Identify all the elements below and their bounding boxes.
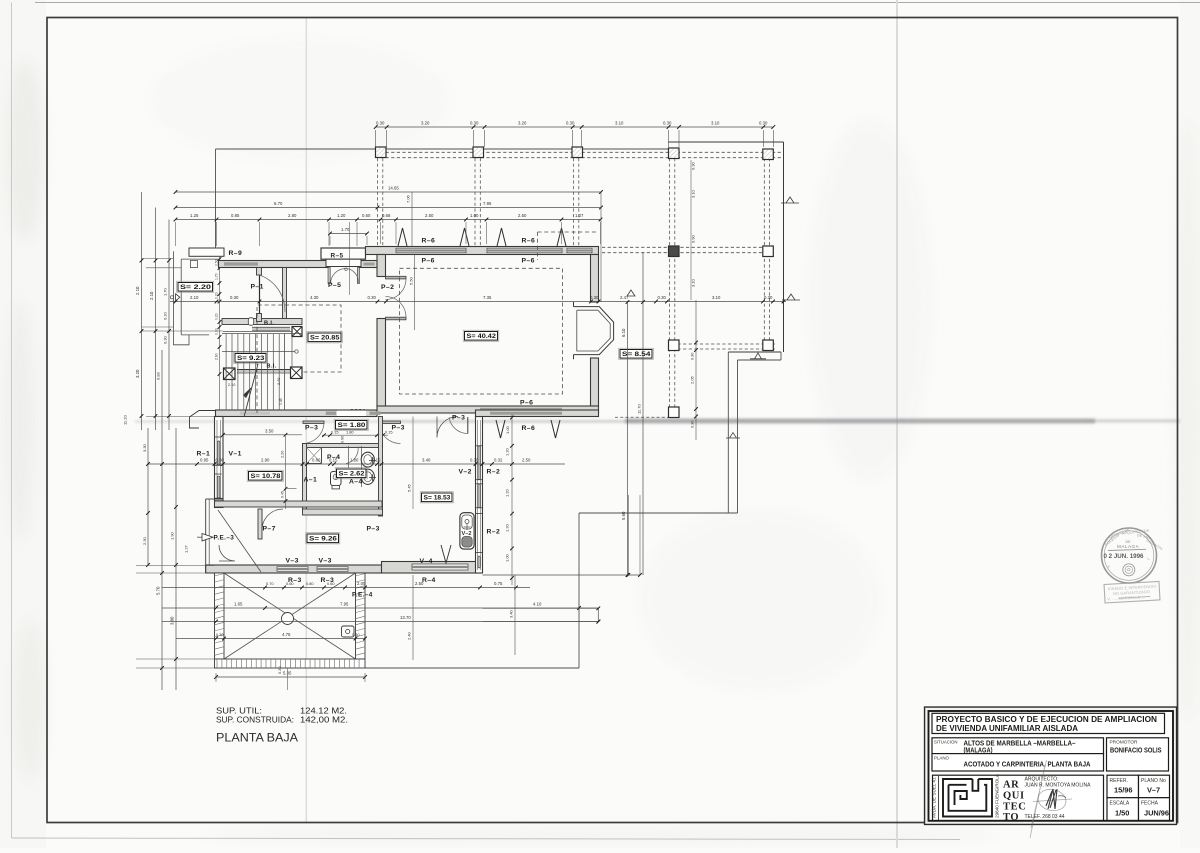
svg-text:R–2: R–2 <box>487 469 501 476</box>
svg-text:142,00 M2.: 142,00 M2. <box>300 714 348 724</box>
svg-text:0.30: 0.30 <box>368 295 377 300</box>
svg-text:MALAGA: MALAGA <box>1117 544 1140 549</box>
visado rectangular stamp <box>1104 581 1160 603</box>
svg-text:AVDA. DE SUEL 41: AVDA. DE SUEL 41 <box>932 777 937 818</box>
eave dashed south of bay <box>615 416 668 418</box>
svg-text:PROMOTOR: PROMOTOR <box>1110 739 1139 745</box>
area box S=2.62 <box>335 468 367 479</box>
pergola column A3 <box>572 147 583 158</box>
svg-text:R–6: R–6 <box>522 425 536 432</box>
situacion cell <box>932 738 1104 754</box>
door P-2 leaves <box>386 276 407 279</box>
terrace platform step top <box>728 351 781 353</box>
svg-text:2.30: 2.30 <box>142 536 147 545</box>
svg-text:7.06: 7.06 <box>406 194 411 203</box>
closet B.I. lower <box>237 369 290 371</box>
svg-text:V–7: V–7 <box>1147 786 1160 795</box>
dining room dashed outline <box>257 305 341 413</box>
area box S=10.78 <box>247 470 283 481</box>
svg-text:QUI: QUI <box>1003 791 1025 802</box>
living room west wall pillar <box>377 255 386 277</box>
dim 3.50 bedroom <box>223 434 302 436</box>
house west wall lower wing <box>215 417 224 508</box>
svg-text:2.10: 2.10 <box>149 291 154 300</box>
svg-text:V–1: V–1 <box>229 451 242 458</box>
svg-text:1.80: 1.80 <box>346 430 354 435</box>
svg-text:P–3: P–3 <box>367 526 380 533</box>
svg-text:29640 FUENGIROLA: 29640 FUENGIROLA <box>995 773 1000 818</box>
terrace hatched right strip <box>356 573 366 659</box>
living room east wall upper <box>591 255 599 303</box>
vertical dim 7.06 <box>411 192 413 247</box>
pergola column C5 <box>763 340 774 351</box>
terrace platform right wall inner <box>737 360 739 513</box>
door P-1 leaf and swing <box>259 275 261 314</box>
pergola post line v2b <box>479 158 481 246</box>
college stamp <box>1102 527 1165 583</box>
svg-text:S= 2.20: S= 2.20 <box>180 284 212 291</box>
area box S=9.23 <box>234 352 268 363</box>
area box S=1.80 <box>334 419 368 430</box>
dim chain y=464 <box>148 463 530 465</box>
architect logo meander <box>943 779 992 817</box>
corridor wall west step <box>190 411 216 429</box>
kitchen sink unit <box>460 513 474 549</box>
stair east boundary <box>284 334 286 411</box>
mid horizontal dim chain y=301.5 <box>170 301 786 303</box>
left extension lines <box>142 258 174 260</box>
corridor doors P-3 left <box>303 421 324 424</box>
svg-text:0.70: 0.70 <box>266 581 274 586</box>
vertical dims in terrace area <box>412 575 414 660</box>
stair treads <box>225 334 227 411</box>
svg-text:P–6: P–6 <box>522 258 535 265</box>
svg-text:1.00: 1.00 <box>505 425 510 434</box>
svg-text:A–4: A–4 <box>349 479 363 486</box>
area box S=9.26 <box>306 533 340 544</box>
svg-text:0.90: 0.90 <box>341 436 345 443</box>
vestibule R-5 box <box>321 248 366 259</box>
svg-text:2.50: 2.50 <box>518 213 527 218</box>
svg-text:ALTOS DE MARBELLA –MARBELLA: ALTOS DE MARBELLA –MARBELLA– <box>964 740 1076 747</box>
svg-text:2.40: 2.40 <box>277 378 281 385</box>
signature <box>1030 760 1072 838</box>
vertical fold crease left <box>306 17 308 823</box>
svg-text:2.40: 2.40 <box>407 631 412 640</box>
svg-text:V–3: V–3 <box>286 558 299 565</box>
svg-text:2.00: 2.00 <box>357 581 366 586</box>
pergola column B5 <box>763 246 774 257</box>
pergola column A5 <box>763 149 774 160</box>
svg-text:0.60: 0.60 <box>312 458 321 463</box>
pergola column B4 <box>669 246 680 257</box>
svg-text:3.20: 3.20 <box>135 369 140 378</box>
pergola column A4 <box>669 148 680 159</box>
area box S=8.54 <box>619 348 654 359</box>
svg-text:1.90: 1.90 <box>170 531 175 540</box>
bathroom north wall <box>303 444 383 448</box>
pergola post line v1 <box>377 158 379 246</box>
entry wall east piece <box>360 261 378 268</box>
svg-text:0.30: 0.30 <box>376 121 385 126</box>
svg-text:5.60: 5.60 <box>621 511 626 520</box>
svg-text:2.50: 2.50 <box>522 458 531 463</box>
area box S=18.53 <box>420 492 453 503</box>
svg-text:2.50: 2.50 <box>415 581 424 586</box>
dim 14.65 <box>176 191 602 193</box>
dim chain y=608 <box>162 607 599 609</box>
scan page top edge <box>35 2 1200 4</box>
svg-text:0.15: 0.15 <box>329 458 338 463</box>
arquitecto word <box>1003 780 1026 824</box>
window triangle V-1 <box>441 545 451 563</box>
living room east wall lower <box>591 358 599 406</box>
svg-text:0.30: 0.30 <box>163 335 168 344</box>
svg-text:0.20: 0.20 <box>215 313 219 320</box>
svg-text:PLANO No: PLANO No <box>1141 778 1166 784</box>
elevation flag on platform wall <box>726 433 740 439</box>
scan page left edge <box>11 3 13 839</box>
bedroom interior vertical dim <box>285 436 287 509</box>
svg-text:0.95: 0.95 <box>200 458 209 463</box>
window triangles south-east wall <box>496 420 505 438</box>
pergola solid right edge <box>783 142 785 352</box>
svg-text:0.30: 0.30 <box>759 121 768 126</box>
area box S=20.85 <box>307 332 343 343</box>
south wall kitchen piece with window V-4 <box>382 562 482 574</box>
roof outline left edge upper <box>215 149 217 248</box>
closet column upper <box>292 327 302 337</box>
dim 5.35 <box>216 676 365 678</box>
stair west closet wall <box>223 331 302 333</box>
svg-text:S= 9.26: S= 9.26 <box>309 536 337 543</box>
pergola post line v3b <box>578 158 580 246</box>
svg-text:0.75: 0.75 <box>494 581 503 586</box>
svg-text:3.10: 3.10 <box>712 295 721 300</box>
svg-text:2.80: 2.80 <box>288 213 297 218</box>
svg-text:14.65: 14.65 <box>388 186 399 191</box>
pergola top beam dashed <box>380 151 783 153</box>
stamp arc text <box>1104 527 1164 569</box>
terrace drain sink <box>342 626 355 637</box>
porch window symbol <box>176 294 180 301</box>
svg-text:REFER.: REFER. <box>1110 778 1128 784</box>
bedroom south wall (S=10.78) <box>215 501 383 507</box>
wall between P.E.-3 and room <box>258 509 262 539</box>
stair up arrow <box>244 364 258 417</box>
svg-text:P.E.–4: P.E.–4 <box>352 592 373 599</box>
vertical fold crease right <box>896 0 898 848</box>
svg-text:0.30: 0.30 <box>658 295 667 300</box>
south wall of bedroom wing with windows V-3 <box>206 565 382 573</box>
svg-text:7.95: 7.95 <box>483 201 492 206</box>
window triangles north <box>398 228 407 246</box>
svg-text:0.20: 0.20 <box>163 311 168 320</box>
svg-text:1.25: 1.25 <box>190 213 199 218</box>
svg-text:P–3: P–3 <box>452 415 465 422</box>
svg-text:P–7: P–7 <box>263 526 276 533</box>
P-5 door jambs <box>328 268 330 284</box>
svg-text:ESCALA: ESCALA <box>1110 801 1130 807</box>
svg-text:13.70: 13.70 <box>400 615 411 620</box>
area box S=2.20 <box>177 281 214 292</box>
svg-text:0.30: 0.30 <box>216 632 224 637</box>
area box S=40.42 <box>463 330 499 341</box>
surface text block <box>216 706 348 745</box>
svg-text:0.30: 0.30 <box>663 121 672 126</box>
svg-text:0.30: 0.30 <box>215 328 219 335</box>
svg-text:R–6: R–6 <box>422 238 436 245</box>
pergola post line v4b <box>674 158 676 407</box>
svg-text:P–1: P–1 <box>251 284 264 291</box>
svg-text:2.10: 2.10 <box>190 295 199 300</box>
svg-text:1.70: 1.70 <box>215 273 219 280</box>
hall south wall band <box>222 319 302 325</box>
terrace platform step inner <box>738 359 782 361</box>
svg-text:1.20: 1.20 <box>505 523 510 532</box>
svg-text:3.80: 3.80 <box>170 616 175 625</box>
svg-text:3.40: 3.40 <box>422 458 431 463</box>
window R-1 V-1 glazing slots <box>217 441 220 465</box>
svg-text:0.30: 0.30 <box>470 121 479 126</box>
entry door arc <box>219 545 235 561</box>
svg-text:4.30: 4.30 <box>310 295 319 300</box>
wash basin <box>331 472 342 486</box>
door P-5 arcs <box>331 269 346 284</box>
svg-text:PLANTA BAJA: PLANTA BAJA <box>216 731 298 745</box>
svg-text:1.00: 1.00 <box>470 213 479 218</box>
svg-text:P–6: P–6 <box>520 400 533 407</box>
dim 6.70 / 7.95 <box>176 207 602 209</box>
door P-1 jambs <box>257 268 262 276</box>
svg-text:0.30: 0.30 <box>216 458 225 463</box>
corridor doors P-3 right <box>379 421 401 424</box>
svg-text:0.60: 0.60 <box>327 581 335 586</box>
svg-text:SITUACION: SITUACION <box>934 739 958 745</box>
svg-text:2.20: 2.20 <box>281 451 285 458</box>
svg-text:7.95: 7.95 <box>340 602 349 607</box>
terrace diagonals <box>224 573 356 659</box>
closet column lower right <box>291 367 303 379</box>
stair landing edge <box>291 337 293 368</box>
svg-text:0.80: 0.80 <box>306 581 314 586</box>
svg-text:FECHA: FECHA <box>1141 801 1159 807</box>
svg-text:0.30: 0.30 <box>566 121 575 126</box>
svg-text:3.50: 3.50 <box>265 428 274 433</box>
svg-text:BONIFACIO SOLIS: BONIFACIO SOLIS <box>1110 747 1162 754</box>
vertical dim chain x=696 lower <box>695 300 697 440</box>
svg-text:1.70: 1.70 <box>341 227 350 232</box>
svg-text:7.35: 7.35 <box>483 295 492 300</box>
svg-text:P–2: P–2 <box>381 284 394 291</box>
terrace platform bottom edge right <box>579 512 738 514</box>
svg-text:1.27: 1.27 <box>184 544 189 553</box>
pergola column A2 <box>473 147 484 158</box>
svg-text:3.10: 3.10 <box>615 121 624 126</box>
svg-text:0.15: 0.15 <box>385 430 393 435</box>
fecha cell <box>1139 798 1170 821</box>
svg-text:S= 18.53: S= 18.53 <box>424 495 451 502</box>
svg-text:S= 1.80: S= 1.80 <box>338 422 366 429</box>
plano no cell <box>1139 775 1170 798</box>
entry P.E.-3 diagonal <box>218 510 261 572</box>
svg-text:DE VIVIENDA UNIFAMILIAR AIS: DE VIVIENDA UNIFAMILIAR AISLADA <box>936 724 1078 733</box>
roof outline top edge <box>216 148 676 150</box>
svg-text:11.70: 11.70 <box>637 404 642 414</box>
WC niche line <box>361 446 363 487</box>
extension lines bottom right <box>483 607 599 609</box>
pergola post line v2 <box>474 158 476 246</box>
vertical dim kitchen right <box>511 414 513 585</box>
living room south wall windows P-6 <box>377 406 599 413</box>
svg-text:R–4: R–4 <box>422 577 436 584</box>
svg-text:S= 40.42: S= 40.42 <box>467 333 497 340</box>
svg-text:R–5: R–5 <box>331 253 344 260</box>
title block <box>925 707 1177 838</box>
pergola post line v3 <box>573 158 575 246</box>
svg-text:PROYECTO BASICO Y DE EJECU: PROYECTO BASICO Y DE EJECUCION DE AMPLIA… <box>936 715 1157 724</box>
svg-text:SUP. CONSTRUIDA:: SUP. CONSTRUIDA: <box>216 714 294 724</box>
svg-text:4.75: 4.75 <box>282 632 291 637</box>
svg-text:V–2: V–2 <box>462 531 472 537</box>
svg-text:0.20: 0.20 <box>215 292 219 299</box>
svg-text:0.50: 0.50 <box>215 259 219 266</box>
svg-text:A–1: A–1 <box>304 477 318 484</box>
svg-text:PLANO: PLANO <box>934 756 949 762</box>
title block outer border <box>925 708 1177 825</box>
pergola column C4 <box>669 340 680 351</box>
scan page bottom edge <box>12 838 961 840</box>
terrace platform right wall outer <box>727 352 729 513</box>
svg-text:2.10: 2.10 <box>135 286 140 295</box>
svg-text:JUAN R. MONTOYA MOLINA: JUAN R. MONTOYA MOLINA <box>1025 783 1092 789</box>
dim 1.70 R-5 <box>330 233 367 235</box>
svg-text:V–3: V–3 <box>319 558 332 565</box>
WC toilet <box>361 452 374 467</box>
svg-text:4.10: 4.10 <box>533 602 542 607</box>
svg-text:JUN/96: JUN/96 <box>1144 809 1169 818</box>
porch west deck outline <box>174 251 219 344</box>
corridor small dim ticks <box>322 434 388 436</box>
svg-text:1.20: 1.20 <box>505 488 510 497</box>
svg-text:11.20: 11.20 <box>123 415 128 425</box>
svg-text:0.68: 0.68 <box>382 213 391 218</box>
door P-4 <box>346 447 358 464</box>
svg-text:3.20: 3.20 <box>421 121 430 126</box>
svg-text:0.83: 0.83 <box>156 371 161 380</box>
svg-text:V–4: V–4 <box>420 558 433 565</box>
svg-text:3.40: 3.40 <box>509 609 514 618</box>
vertical dim 5.50 <box>414 255 416 331</box>
closet column lower left <box>224 368 236 380</box>
svg-text:0.60: 0.60 <box>286 581 294 586</box>
plano cell <box>932 754 1104 771</box>
dim line y=575 right <box>483 574 641 576</box>
svg-text:1.70: 1.70 <box>163 287 168 296</box>
west wall vertical dim line <box>219 256 221 410</box>
svg-text:0.30: 0.30 <box>590 295 599 300</box>
svg-text:0.32: 0.32 <box>494 458 503 463</box>
svg-text:0.30: 0.30 <box>691 421 695 428</box>
porch canopy R-9 outline <box>189 248 224 256</box>
kitchen door P-3 <box>437 417 458 438</box>
pergola post line v4 <box>669 158 671 407</box>
bay window inner <box>577 310 610 351</box>
entry north wall with window R-9 <box>219 261 329 268</box>
kitchen east wall with window V-2 <box>476 417 483 574</box>
terrace platform south edge <box>365 667 579 669</box>
window V-2 glazing slots <box>478 446 480 480</box>
architect cell <box>933 775 1104 820</box>
eave dashed line <box>538 231 599 233</box>
promotor cell <box>1107 738 1169 771</box>
main north wall with windows P-6 <box>366 247 599 255</box>
svg-text:5.70: 5.70 <box>156 586 161 595</box>
bedroom door P-7 <box>262 509 283 530</box>
svg-text:P–5: P–5 <box>328 282 341 289</box>
svg-text:P–3: P–3 <box>392 425 405 432</box>
hall east wall <box>283 268 287 319</box>
svg-text:0.15: 0.15 <box>331 430 339 435</box>
west pier dark <box>215 499 224 508</box>
svg-text:S= 2.62: S= 2.62 <box>339 471 365 478</box>
bay window outer <box>574 302 614 359</box>
svg-text:B.I.: B.I. <box>264 321 274 327</box>
left extension lines to south wall <box>136 565 215 567</box>
R-5 centre extension line <box>349 222 351 295</box>
svg-text:P–3: P–3 <box>305 425 318 432</box>
svg-text:R–9: R–9 <box>229 250 243 257</box>
svg-text:2.50: 2.50 <box>425 213 434 218</box>
pergola solid top edge <box>668 141 784 143</box>
svg-text:3.20: 3.20 <box>518 121 527 126</box>
title cell <box>932 713 1165 733</box>
svg-text:0.30: 0.30 <box>230 295 239 300</box>
svg-text:2.05: 2.05 <box>690 375 695 384</box>
svg-text:P.E.–3: P.E.–3 <box>214 535 235 542</box>
stamp emblem <box>1123 564 1135 576</box>
entrance recess walls <box>205 499 207 573</box>
svg-text:1.20: 1.20 <box>505 447 510 456</box>
pergola post line v1b <box>382 158 384 246</box>
svg-text:TELEF. 268 03 44: TELEF. 268 03 44 <box>1025 814 1065 820</box>
terrace platform east edge <box>578 513 580 668</box>
left vertical dims lower <box>147 428 149 565</box>
bathroom-kitchen wall <box>379 417 383 517</box>
svg-text:1.65: 1.65 <box>234 602 243 607</box>
svg-text:S= 10.78: S= 10.78 <box>251 473 281 480</box>
living room ceiling dashed rectangle <box>400 268 563 394</box>
bath divider <box>348 446 350 468</box>
svg-text:15/96: 15/96 <box>1114 786 1133 795</box>
pergola column D4 <box>669 407 680 418</box>
bottom extension verticals <box>287 668 289 690</box>
P.E.-3 arrow symbol <box>202 534 213 541</box>
WC bidet <box>361 469 374 484</box>
svg-text:0.30: 0.30 <box>691 353 695 360</box>
svg-text:R–1: R–1 <box>197 451 211 458</box>
svg-text:B.I.: B.I. <box>267 364 277 370</box>
kitchen north wall piece <box>476 410 599 417</box>
svg-text:2.60: 2.60 <box>215 353 219 360</box>
svg-text:3.10: 3.10 <box>711 121 720 126</box>
pergola beam row2 dashed <box>602 246 775 248</box>
svg-text:0.45: 0.45 <box>281 491 285 498</box>
dim chain pergola top <box>376 126 773 128</box>
escala cell <box>1107 798 1139 821</box>
svg-text:1.80: 1.80 <box>350 458 359 463</box>
svg-text:0.15: 0.15 <box>372 458 381 463</box>
